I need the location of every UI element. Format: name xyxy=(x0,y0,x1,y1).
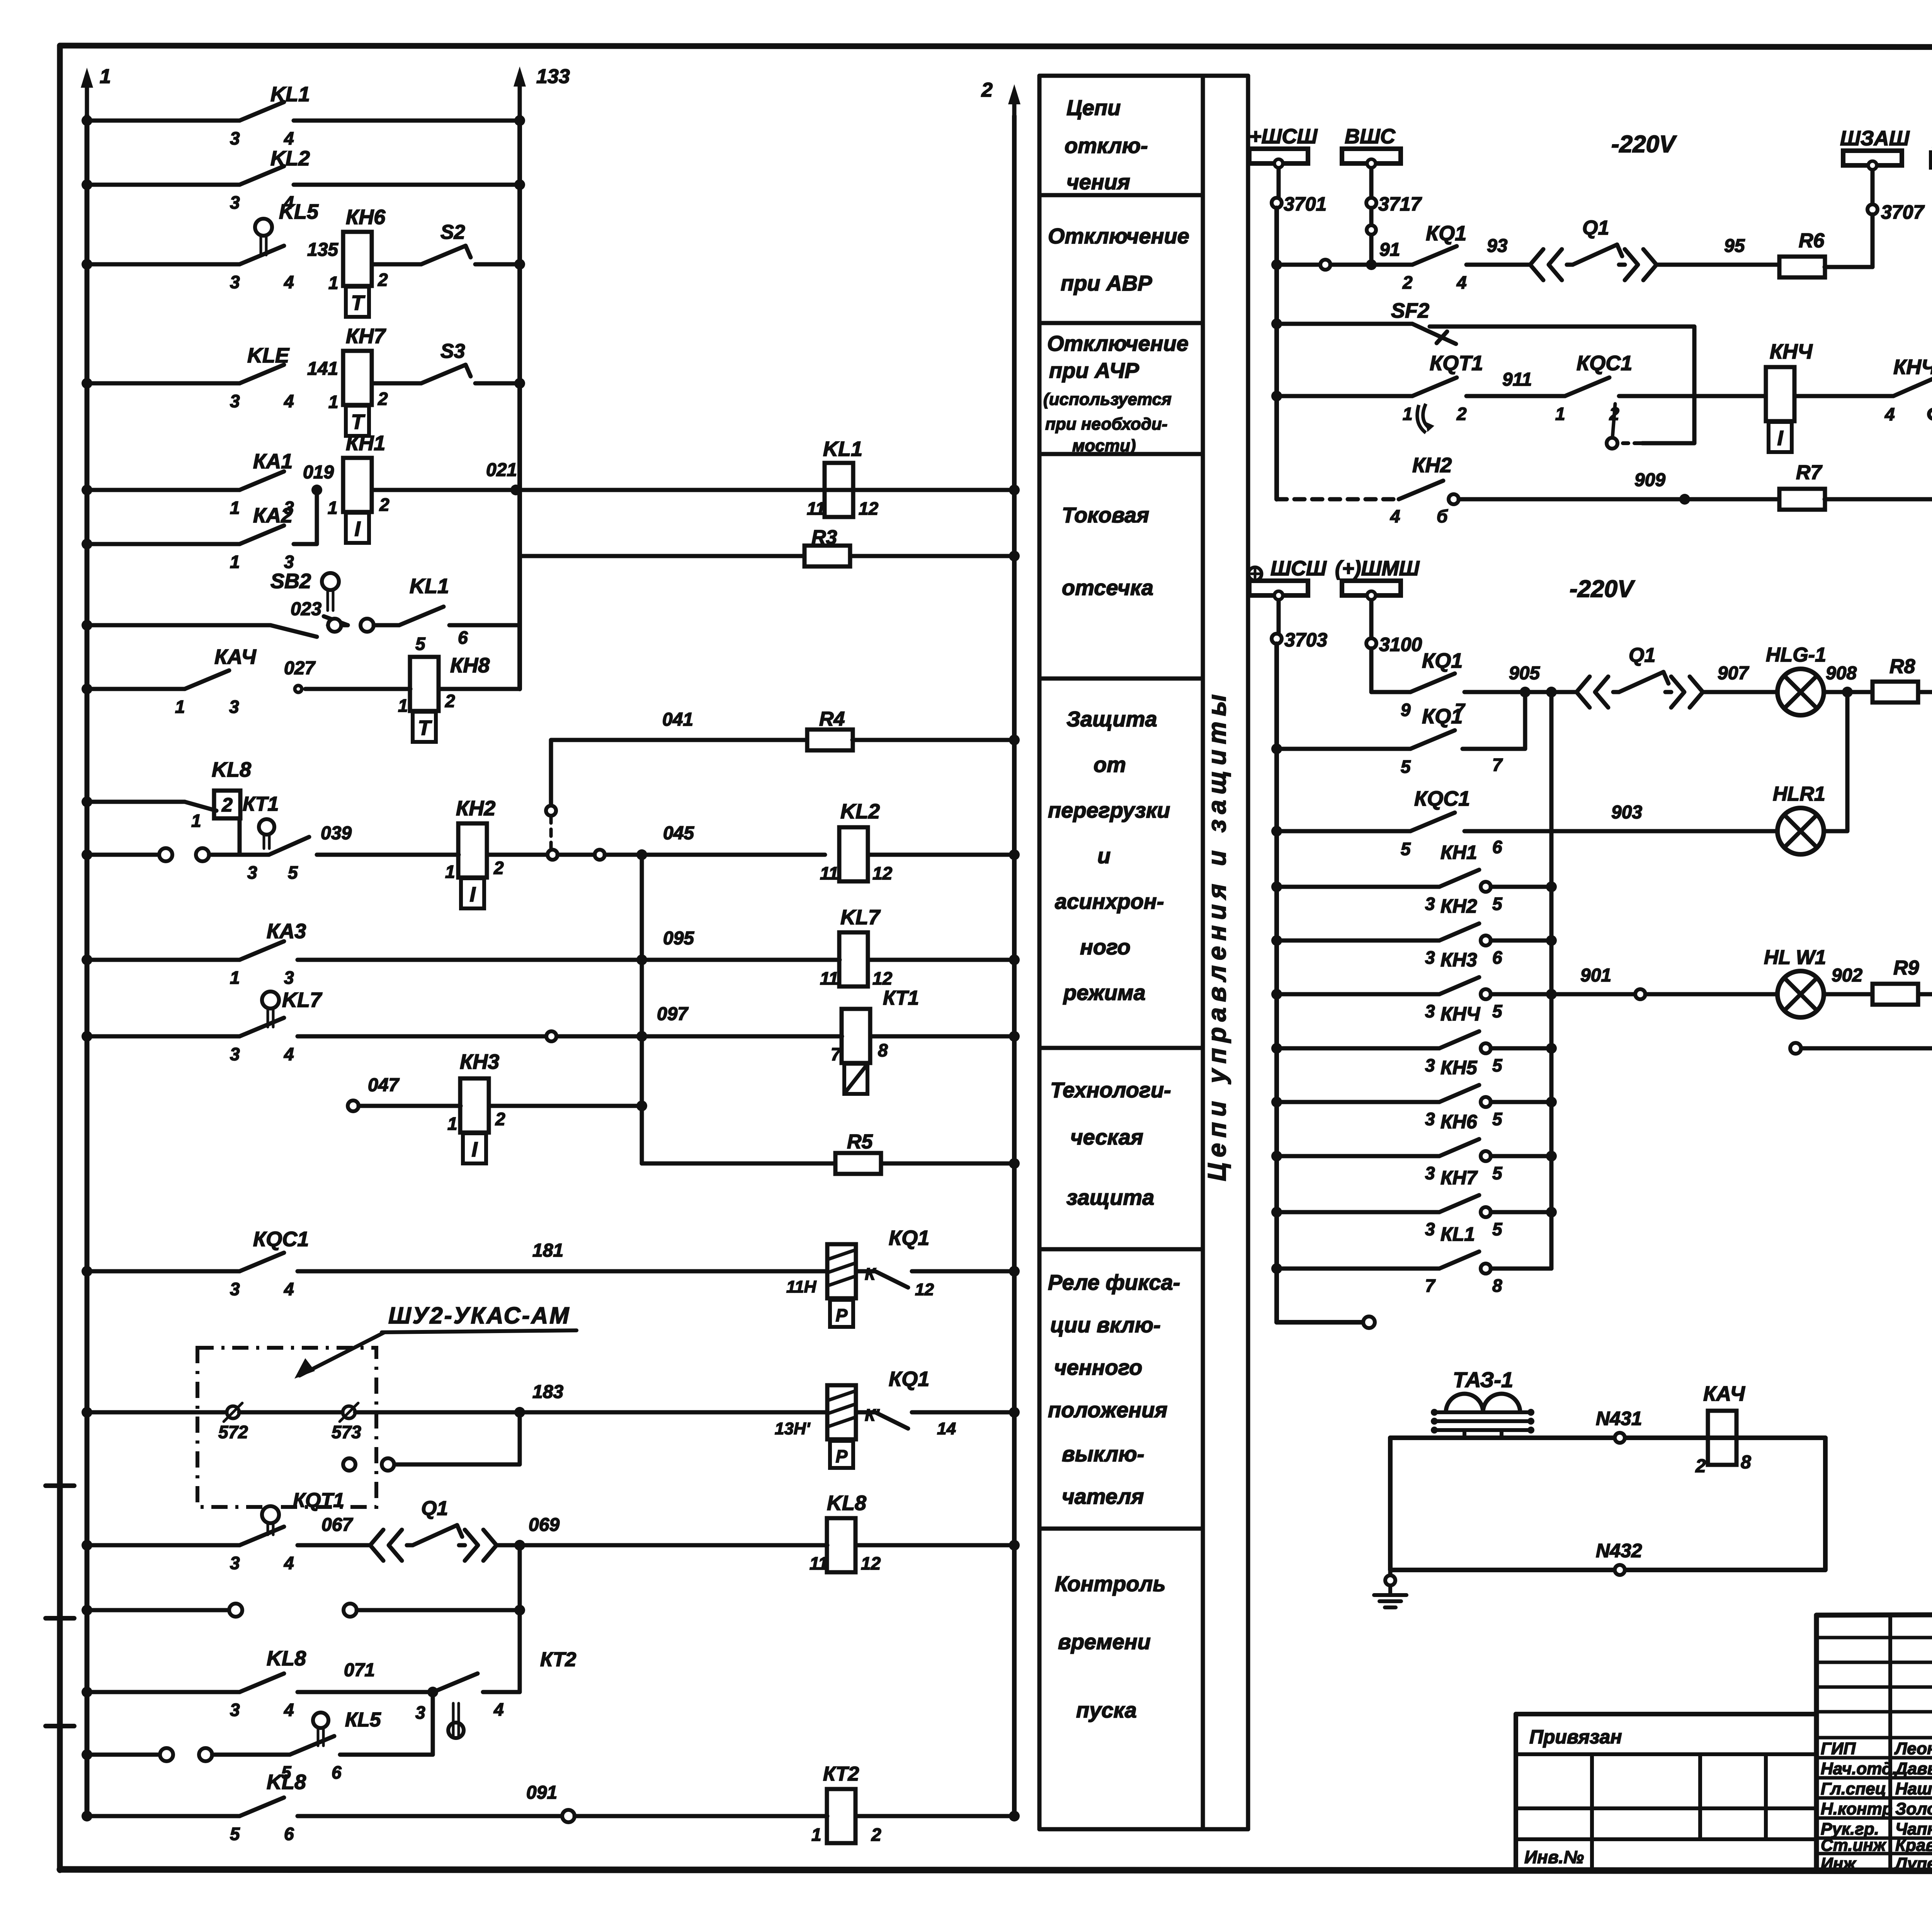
svg-text:отсечка: отсечка xyxy=(1062,575,1153,600)
svg-text:Отключение: Отключение xyxy=(1047,331,1189,355)
svg-text:5: 5 xyxy=(1492,1109,1503,1129)
svg-text:защита: защита xyxy=(1066,1185,1154,1209)
svg-text:4: 4 xyxy=(284,1279,294,1299)
svg-text:KL8: KL8 xyxy=(827,1492,866,1515)
svg-text:HL W1: HL W1 xyxy=(1764,946,1826,969)
svg-text:071: 071 xyxy=(344,1660,375,1680)
svg-text:8: 8 xyxy=(878,1040,888,1060)
svg-text:КQТ1: КQТ1 xyxy=(1430,352,1483,375)
svg-text:ВШС: ВШС xyxy=(1345,125,1396,148)
svg-text:3: 3 xyxy=(1425,1055,1435,1075)
svg-text:КН3: КН3 xyxy=(1440,949,1477,971)
svg-text:5: 5 xyxy=(1492,1001,1503,1021)
svg-text:4: 4 xyxy=(284,1553,294,1573)
svg-text:2: 2 xyxy=(378,270,388,290)
svg-text:3: 3 xyxy=(230,192,240,213)
svg-text:+ШСШ: +ШСШ xyxy=(1249,125,1318,148)
svg-text:2: 2 xyxy=(495,1109,505,1129)
svg-text:5: 5 xyxy=(1401,839,1411,859)
svg-text:6: 6 xyxy=(1492,837,1502,857)
svg-text:ТАЗ-1: ТАЗ-1 xyxy=(1453,1367,1513,1392)
svg-text:КН1: КН1 xyxy=(346,432,385,455)
svg-text:КН1: КН1 xyxy=(1440,842,1477,863)
svg-text:-220V: -220V xyxy=(1611,131,1677,158)
svg-text:KL7: KL7 xyxy=(282,988,323,1012)
svg-text:KL5: KL5 xyxy=(279,200,319,223)
svg-text:069: 069 xyxy=(529,1515,560,1535)
svg-text:КН2: КН2 xyxy=(1440,895,1477,917)
svg-text:Цепи управления и защиты: Цепи управления и защиты xyxy=(1202,689,1231,1181)
svg-text:КТ2: КТ2 xyxy=(823,1763,859,1785)
svg-text:I: I xyxy=(354,517,361,541)
svg-text:КНЧ: КНЧ xyxy=(1770,340,1813,363)
svg-text:1: 1 xyxy=(230,552,240,572)
svg-text:5: 5 xyxy=(288,862,298,883)
svg-text:12: 12 xyxy=(872,968,893,988)
svg-text:905: 905 xyxy=(1509,663,1540,684)
svg-text:при необходи-: при необходи- xyxy=(1045,415,1167,434)
svg-text:1: 1 xyxy=(447,1114,457,1134)
svg-text:3701: 3701 xyxy=(1284,193,1327,215)
svg-text:3: 3 xyxy=(229,697,239,717)
svg-text:3: 3 xyxy=(1425,1163,1435,1183)
svg-text:КН5: КН5 xyxy=(1440,1057,1478,1078)
svg-text:при АЧР: при АЧР xyxy=(1049,358,1139,383)
svg-text:2: 2 xyxy=(445,691,455,711)
svg-text:023: 023 xyxy=(291,599,321,619)
svg-text:019: 019 xyxy=(303,462,334,483)
svg-text:902: 902 xyxy=(1832,965,1862,986)
svg-text:3707: 3707 xyxy=(1881,201,1925,223)
svg-text:I: I xyxy=(469,883,476,906)
svg-text:908: 908 xyxy=(1826,663,1857,684)
svg-text:1: 1 xyxy=(1403,404,1413,424)
svg-text:7: 7 xyxy=(831,1044,842,1064)
svg-text:KLЕ: KLЕ xyxy=(247,344,290,367)
svg-text:КА1: КА1 xyxy=(253,450,293,473)
svg-text:903: 903 xyxy=(1611,802,1642,823)
svg-text:при АВР: при АВР xyxy=(1061,271,1152,295)
svg-text:1: 1 xyxy=(398,696,408,716)
svg-text:ШСШ: ШСШ xyxy=(1270,557,1327,580)
svg-text:Т: Т xyxy=(351,410,366,434)
svg-text:1: 1 xyxy=(230,968,240,988)
svg-text:КТ1: КТ1 xyxy=(883,987,919,1009)
svg-text:3: 3 xyxy=(1425,894,1435,914)
svg-text:KL2: KL2 xyxy=(270,147,310,170)
svg-text:045: 045 xyxy=(663,823,694,844)
svg-text:13Н': 13Н' xyxy=(775,1419,811,1438)
svg-text:2: 2 xyxy=(1456,404,1467,424)
svg-text:1: 1 xyxy=(230,498,240,518)
svg-text:1: 1 xyxy=(100,65,111,88)
svg-text:6: 6 xyxy=(284,1824,294,1844)
svg-text:КАЧ: КАЧ xyxy=(214,645,257,668)
svg-text:3: 3 xyxy=(415,1702,425,1723)
svg-text:Отключение: Отключение xyxy=(1048,224,1189,248)
svg-text:141: 141 xyxy=(307,359,338,379)
svg-text:ГИП: ГИП xyxy=(1821,1739,1856,1758)
svg-text:91: 91 xyxy=(1379,240,1400,260)
svg-text:3: 3 xyxy=(1425,947,1435,968)
svg-text:1: 1 xyxy=(1555,404,1565,424)
svg-text:Р: Р xyxy=(836,1305,848,1325)
svg-text:КН7: КН7 xyxy=(346,325,386,348)
svg-text:2: 2 xyxy=(981,79,993,101)
svg-text:3: 3 xyxy=(230,391,240,411)
svg-text:КН6: КН6 xyxy=(1440,1111,1478,1133)
svg-text:5: 5 xyxy=(1401,757,1411,777)
svg-text:3: 3 xyxy=(1425,1109,1435,1129)
svg-text:перегрузки: перегрузки xyxy=(1048,798,1170,822)
svg-text:Т: Т xyxy=(351,291,366,315)
svg-text:KL1: KL1 xyxy=(410,575,449,598)
svg-text:КQ1: КQ1 xyxy=(1422,705,1463,728)
svg-text:отклю-: отклю- xyxy=(1065,133,1148,158)
svg-text:095: 095 xyxy=(663,928,694,949)
svg-text:КНЧ: КНЧ xyxy=(1440,1003,1481,1025)
svg-text:4: 4 xyxy=(284,1700,294,1720)
svg-text:R9: R9 xyxy=(1893,957,1919,979)
svg-text:Гл.спец: Гл.спец xyxy=(1821,1779,1886,1798)
svg-text:9: 9 xyxy=(1401,700,1411,720)
svg-text:К: К xyxy=(865,1265,876,1284)
svg-text:(+)ШМШ: (+)ШМШ xyxy=(1335,557,1420,580)
svg-text:КТ1: КТ1 xyxy=(243,793,279,815)
svg-text:3100: 3100 xyxy=(1379,634,1422,655)
svg-text:907: 907 xyxy=(1718,663,1749,684)
svg-text:режима: режима xyxy=(1063,980,1146,1005)
svg-text:I: I xyxy=(471,1138,478,1161)
svg-text:Q1: Q1 xyxy=(1629,644,1655,667)
svg-text:КА2: КА2 xyxy=(253,504,293,527)
svg-text:4: 4 xyxy=(1390,506,1400,526)
svg-text:ческая: ческая xyxy=(1070,1125,1143,1149)
svg-text:Q1: Q1 xyxy=(1582,217,1609,239)
svg-text:КL5: КL5 xyxy=(345,1709,381,1731)
svg-text:7: 7 xyxy=(1425,1276,1436,1296)
svg-text:KL1: KL1 xyxy=(823,437,862,461)
svg-text:SB2: SB2 xyxy=(270,570,311,593)
svg-text:ции вклю-: ции вклю- xyxy=(1050,1313,1161,1337)
svg-text:Р: Р xyxy=(836,1446,848,1466)
svg-text:181: 181 xyxy=(532,1240,563,1261)
svg-text:Нашельский: Нашельский xyxy=(1895,1779,1932,1798)
svg-text:3: 3 xyxy=(284,968,294,988)
svg-text:2: 2 xyxy=(379,495,389,515)
svg-text:S3: S3 xyxy=(440,340,465,362)
svg-text:14: 14 xyxy=(937,1419,956,1438)
svg-text:1: 1 xyxy=(328,273,338,293)
svg-text:КQ1: КQ1 xyxy=(1422,649,1463,672)
svg-text:Привязан: Привязан xyxy=(1529,1726,1622,1748)
svg-text:067: 067 xyxy=(321,1515,353,1535)
svg-text:пуска: пуска xyxy=(1076,1698,1137,1722)
svg-text:95: 95 xyxy=(1724,236,1745,256)
svg-text:3717: 3717 xyxy=(1378,193,1422,215)
svg-text:1: 1 xyxy=(175,697,185,717)
svg-text:8: 8 xyxy=(1741,1452,1751,1473)
svg-text:3: 3 xyxy=(284,552,294,572)
svg-text:N432: N432 xyxy=(1596,1540,1642,1561)
svg-text:097: 097 xyxy=(657,1004,689,1024)
svg-text:2: 2 xyxy=(1695,1456,1706,1476)
svg-text:N431: N431 xyxy=(1596,1408,1642,1429)
svg-text:KL7: KL7 xyxy=(840,906,881,929)
svg-text:11: 11 xyxy=(820,863,838,883)
svg-text:12: 12 xyxy=(872,863,893,883)
svg-text:R4: R4 xyxy=(819,708,845,730)
svg-text:3: 3 xyxy=(1425,1001,1435,1021)
svg-text:мости): мости) xyxy=(1072,436,1136,455)
svg-text:КА3: КА3 xyxy=(267,920,306,943)
svg-text:4: 4 xyxy=(493,1699,504,1719)
svg-text:ШУ2-УКАС-АМ: ШУ2-УКАС-АМ xyxy=(388,1303,570,1328)
svg-text:Ст.инж: Ст.инж xyxy=(1821,1836,1887,1855)
svg-text:1: 1 xyxy=(191,811,201,831)
svg-text:7: 7 xyxy=(1492,755,1503,775)
svg-text:047: 047 xyxy=(368,1075,400,1095)
svg-text:3: 3 xyxy=(230,1553,240,1573)
svg-text:1: 1 xyxy=(445,862,455,882)
svg-text:5: 5 xyxy=(1492,1163,1503,1183)
svg-text:времени: времени xyxy=(1058,1629,1151,1654)
svg-text:KL8: KL8 xyxy=(267,1647,306,1670)
svg-text:Контроль: Контроль xyxy=(1055,1571,1166,1596)
svg-text:5: 5 xyxy=(230,1824,240,1844)
svg-text:039: 039 xyxy=(321,823,352,844)
svg-text:R3: R3 xyxy=(811,526,837,549)
svg-text:5: 5 xyxy=(1492,894,1503,914)
svg-text:11: 11 xyxy=(820,968,838,988)
svg-text:Давыдов: Давыдов xyxy=(1894,1759,1932,1778)
svg-text:S2: S2 xyxy=(440,221,465,243)
svg-text:КQ1: КQ1 xyxy=(1426,222,1466,245)
svg-text:041: 041 xyxy=(662,709,693,730)
svg-text:1: 1 xyxy=(328,392,338,412)
svg-text:5: 5 xyxy=(1492,1055,1503,1075)
svg-text:R6: R6 xyxy=(1799,230,1825,252)
svg-text:HLR1: HLR1 xyxy=(1773,783,1825,805)
svg-text:5: 5 xyxy=(1492,1219,1503,1239)
svg-text:573: 573 xyxy=(332,1422,361,1442)
svg-text:11: 11 xyxy=(807,498,825,519)
svg-text:021: 021 xyxy=(486,460,517,480)
svg-text:Цепи: Цепи xyxy=(1066,95,1121,120)
svg-text:асинхрон-: асинхрон- xyxy=(1055,889,1164,913)
svg-text:КL1: КL1 xyxy=(1440,1223,1475,1245)
svg-text:Леонов: Леонов xyxy=(1894,1739,1932,1758)
svg-text:KL8: KL8 xyxy=(212,758,251,781)
svg-text:6: 6 xyxy=(332,1762,342,1782)
svg-text:КН3: КН3 xyxy=(460,1050,499,1073)
svg-text:2: 2 xyxy=(1402,272,1413,293)
svg-text:KL2: KL2 xyxy=(840,800,880,823)
svg-text:091: 091 xyxy=(526,1782,557,1803)
svg-text:положения: положения xyxy=(1048,1398,1167,1422)
svg-text:ченного: ченного xyxy=(1054,1355,1142,1379)
svg-text:SF2: SF2 xyxy=(1391,299,1429,322)
svg-text:4: 4 xyxy=(284,391,294,411)
svg-text:Токовая: Токовая xyxy=(1062,503,1149,527)
svg-text:3703: 3703 xyxy=(1284,629,1327,651)
svg-text:027: 027 xyxy=(284,658,316,679)
svg-text:КQC1: КQC1 xyxy=(1577,352,1632,375)
svg-text:3: 3 xyxy=(230,1044,240,1064)
svg-text:б: б xyxy=(1437,506,1448,526)
svg-text:12: 12 xyxy=(859,498,879,519)
svg-text:Защита: Защита xyxy=(1066,707,1157,731)
svg-text:4: 4 xyxy=(284,1044,294,1064)
svg-text:ного: ного xyxy=(1080,935,1131,959)
svg-text:3: 3 xyxy=(230,272,240,292)
svg-text:4: 4 xyxy=(1884,404,1895,424)
svg-text:Q1: Q1 xyxy=(421,1497,448,1520)
svg-text:Технологи-: Технологи- xyxy=(1050,1078,1171,1102)
svg-text:3: 3 xyxy=(230,128,240,148)
svg-text:КQC1: КQC1 xyxy=(253,1228,309,1251)
svg-text:1: 1 xyxy=(811,1825,821,1845)
svg-text:КН2: КН2 xyxy=(1412,454,1452,477)
svg-text:R8: R8 xyxy=(1889,655,1915,678)
svg-text:11: 11 xyxy=(810,1553,828,1573)
svg-text:КН2: КН2 xyxy=(456,797,495,820)
svg-text:4: 4 xyxy=(1456,272,1467,293)
svg-text:Т: Т xyxy=(418,716,432,740)
svg-text:3: 3 xyxy=(1425,1219,1435,1239)
svg-text:КQ1: КQ1 xyxy=(889,1367,929,1391)
svg-text:135: 135 xyxy=(307,240,338,260)
svg-text:Кравцова: Кравцова xyxy=(1895,1836,1932,1855)
svg-text:2: 2 xyxy=(221,794,233,816)
svg-text:3: 3 xyxy=(230,1279,240,1299)
svg-text:183: 183 xyxy=(532,1382,563,1402)
svg-text:12: 12 xyxy=(915,1280,934,1299)
svg-text:3: 3 xyxy=(247,862,257,883)
svg-text:КQC1: КQC1 xyxy=(1414,787,1470,810)
svg-text:12: 12 xyxy=(861,1553,881,1573)
svg-text:КН7: КН7 xyxy=(1440,1167,1478,1189)
svg-text:Нач.отд.: Нач.отд. xyxy=(1821,1759,1897,1778)
svg-text:HLG-1: HLG-1 xyxy=(1766,644,1826,666)
svg-text:2: 2 xyxy=(871,1825,881,1845)
svg-text:КQТ1: КQТ1 xyxy=(293,1489,344,1512)
svg-text:R5: R5 xyxy=(847,1131,873,1153)
svg-text:КНЧ: КНЧ xyxy=(1893,355,1932,379)
svg-text:-220V: -220V xyxy=(1570,576,1635,602)
svg-text:КН8: КН8 xyxy=(450,654,490,677)
svg-text:чения: чения xyxy=(1066,170,1130,194)
svg-text:11Н: 11Н xyxy=(786,1277,817,1296)
svg-text:КАЧ: КАЧ xyxy=(1703,1382,1746,1405)
svg-text:2: 2 xyxy=(493,858,504,878)
svg-text:КТ2: КТ2 xyxy=(540,1648,576,1671)
svg-text:911: 911 xyxy=(1502,369,1532,390)
svg-text:2: 2 xyxy=(1609,404,1619,424)
svg-text:Лупеко: Лупеко xyxy=(1894,1854,1932,1873)
svg-text:133: 133 xyxy=(536,65,570,88)
svg-text:3: 3 xyxy=(230,1700,240,1720)
svg-text:КQ1: КQ1 xyxy=(889,1226,929,1250)
svg-text:(используется: (используется xyxy=(1043,390,1172,409)
svg-text:KL1: KL1 xyxy=(270,83,310,106)
svg-text:I: I xyxy=(1777,427,1783,450)
svg-text:6: 6 xyxy=(458,628,468,648)
svg-text:4: 4 xyxy=(284,272,294,292)
svg-text:8: 8 xyxy=(1492,1276,1502,1296)
svg-text:Инв.№: Инв.№ xyxy=(1524,1847,1584,1867)
svg-text:чателя: чателя xyxy=(1062,1484,1144,1509)
svg-text:1: 1 xyxy=(328,498,338,518)
svg-text:и: и xyxy=(1097,844,1111,868)
svg-text:ШЗАШ: ШЗАШ xyxy=(1840,127,1910,150)
svg-text:93: 93 xyxy=(1487,236,1508,256)
svg-text:Н.контр: Н.контр xyxy=(1821,1799,1893,1818)
svg-text:4: 4 xyxy=(284,128,294,148)
svg-text:909: 909 xyxy=(1634,470,1665,490)
svg-text:6: 6 xyxy=(1492,947,1502,968)
svg-text:от: от xyxy=(1094,752,1126,777)
svg-text:выклю-: выклю- xyxy=(1062,1442,1144,1466)
svg-text:R7: R7 xyxy=(1796,461,1823,484)
svg-text:572: 572 xyxy=(218,1422,248,1442)
svg-text:Золотарева: Золотарева xyxy=(1895,1799,1932,1818)
svg-text:5: 5 xyxy=(415,634,426,654)
svg-text:Инж: Инж xyxy=(1821,1854,1857,1873)
svg-text:КН6: КН6 xyxy=(346,206,386,229)
svg-text:901: 901 xyxy=(1580,965,1611,986)
svg-text:Реле фикса-: Реле фикса- xyxy=(1048,1270,1180,1294)
svg-text:2: 2 xyxy=(378,389,388,409)
svg-text:KL8: KL8 xyxy=(267,1770,306,1794)
